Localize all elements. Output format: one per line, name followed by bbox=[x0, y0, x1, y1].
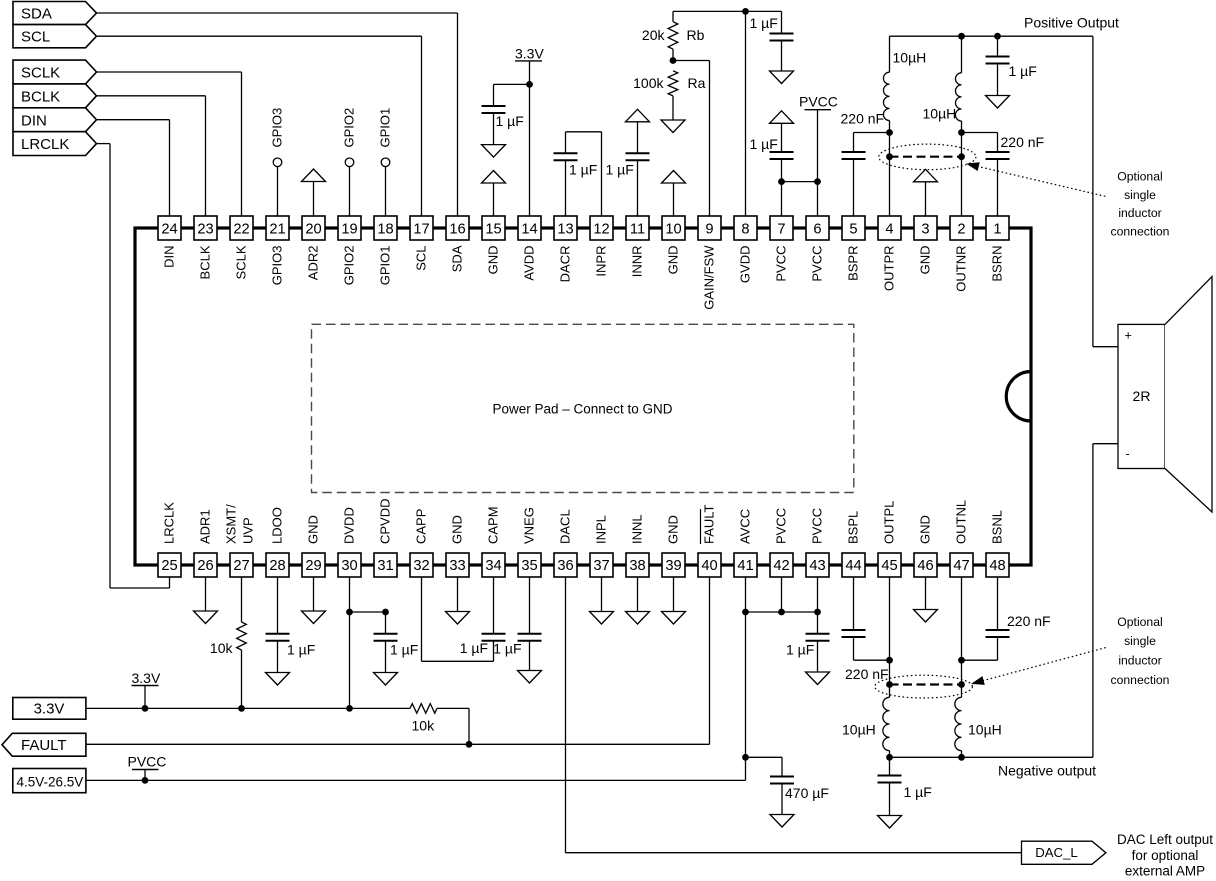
svg-text:PVCC: PVCC bbox=[810, 508, 825, 544]
svg-text:43: 43 bbox=[809, 558, 825, 574]
svg-text:Power Pad – Connect to GND: Power Pad – Connect to GND bbox=[492, 402, 672, 417]
svg-text:220 nF: 220 nF bbox=[841, 111, 885, 127]
pin 4 box bbox=[878, 216, 901, 240]
svg-text:2R: 2R bbox=[1133, 388, 1151, 404]
svg-text:OUTPR: OUTPR bbox=[882, 246, 897, 292]
svg-text:INPR: INPR bbox=[594, 246, 609, 277]
svg-text:48: 48 bbox=[989, 558, 1005, 574]
pin 38 box bbox=[626, 553, 649, 577]
wire positive output rail bbox=[890, 35, 1093, 37]
resistor 10k FAULT pullup bbox=[410, 704, 469, 745]
svg-text:1 µF: 1 µF bbox=[750, 15, 778, 31]
svg-text:GPIO2: GPIO2 bbox=[342, 108, 357, 148]
pin 32 name CAPP bbox=[414, 509, 429, 544]
capacitor 1uF CAPP-CAPM flying bbox=[422, 577, 506, 661]
capacitor 1uF DACR-INPR bbox=[554, 153, 598, 177]
svg-text:GND: GND bbox=[918, 515, 933, 544]
pin 29 box bbox=[302, 553, 325, 577]
pin 3 box bbox=[914, 216, 937, 240]
svg-text:BSRN: BSRN bbox=[990, 246, 1005, 282]
label DAC left output note bbox=[1117, 832, 1213, 879]
power pad region bbox=[312, 324, 854, 492]
svg-text:SDA: SDA bbox=[450, 245, 465, 272]
pin 16 box bbox=[446, 216, 469, 240]
pin 26 box bbox=[194, 553, 217, 577]
svg-text:-: - bbox=[1126, 447, 1130, 461]
svg-text:GND: GND bbox=[666, 246, 681, 275]
svg-text:single: single bbox=[1124, 634, 1156, 648]
pin 9 name GAIN/FSW bbox=[702, 245, 717, 310]
ground below VNEG cap bbox=[518, 671, 542, 684]
svg-text:29: 29 bbox=[305, 558, 321, 574]
pin 30 box bbox=[338, 553, 361, 577]
svg-text:SCL: SCL bbox=[414, 246, 429, 271]
svg-text:VNEG: VNEG bbox=[522, 507, 537, 544]
supply flag 3.3V bbox=[13, 698, 86, 720]
pin 33 name GND bbox=[450, 515, 465, 544]
capacitor 220nF BSPR bbox=[841, 111, 890, 217]
ground arrow above PVCC cap bbox=[770, 111, 794, 152]
svg-text:CAPP: CAPP bbox=[414, 509, 429, 544]
wire 3.3V rail bbox=[86, 686, 410, 709]
svg-text:30: 30 bbox=[341, 558, 357, 574]
pin 42 box bbox=[770, 553, 793, 577]
pin 9 box bbox=[698, 216, 721, 240]
pin 2 box bbox=[950, 216, 973, 240]
svg-text:39: 39 bbox=[665, 558, 681, 574]
inductor L2 10uH (OUTNR) bbox=[923, 36, 962, 216]
capacitor 1uF GVDD bbox=[750, 11, 794, 71]
capacitor 1uF AVDD bbox=[482, 106, 524, 129]
svg-text:OUTNL: OUTNL bbox=[954, 500, 969, 544]
capacitor 1uF output filter R bbox=[986, 36, 1037, 95]
ground pin 39 GND bbox=[662, 577, 686, 624]
svg-text:UVP: UVP bbox=[241, 517, 256, 544]
pin 34 name CAPM bbox=[486, 506, 501, 544]
svg-text:23: 23 bbox=[197, 222, 213, 238]
pin 7 box bbox=[770, 216, 793, 240]
svg-text:2: 2 bbox=[957, 222, 965, 238]
pin 37 box bbox=[590, 553, 613, 577]
svg-text:DVDD: DVDD bbox=[342, 507, 357, 544]
callout arrow (top) bbox=[968, 163, 1107, 197]
svg-text:38: 38 bbox=[629, 558, 645, 574]
ground below LDOO cap bbox=[266, 673, 290, 686]
pin 45 name OUTPL bbox=[882, 501, 897, 544]
svg-text:24: 24 bbox=[161, 222, 177, 238]
pin 38 name INNL bbox=[630, 514, 645, 544]
pin 19 name GPIO2 bbox=[342, 246, 357, 286]
pin 47 box bbox=[950, 553, 973, 577]
wire pin 47 OUTNL down bbox=[961, 577, 963, 697]
pin 40 box bbox=[698, 553, 721, 577]
junction PVCC tie bbox=[778, 178, 821, 185]
junction OUTNL bootstrap bbox=[958, 657, 965, 664]
svg-text:SCLK: SCLK bbox=[21, 65, 60, 82]
svg-text:GAIN/FSW: GAIN/FSW bbox=[702, 245, 717, 310]
svg-text:GND: GND bbox=[486, 246, 501, 275]
svg-text:DACR: DACR bbox=[558, 246, 573, 283]
svg-text:42: 42 bbox=[773, 558, 789, 574]
svg-text:LRCLK: LRCLK bbox=[21, 136, 69, 153]
svg-text:GPIO1: GPIO1 bbox=[378, 108, 393, 148]
label Positive Output bbox=[1024, 15, 1119, 31]
ground below PVCC cap bottom bbox=[806, 672, 830, 685]
junction pin 42 bbox=[778, 609, 785, 616]
svg-text:DAC Left output: DAC Left output bbox=[1117, 832, 1213, 847]
svg-text:connection: connection bbox=[1111, 224, 1170, 238]
flag FAULT bbox=[2, 733, 86, 756]
pin 14 name AVDD bbox=[522, 246, 537, 281]
capacitor 470uF bulk bbox=[746, 757, 829, 814]
svg-text:CAPM: CAPM bbox=[486, 506, 501, 544]
wire pin 36 DACL to DAC_L flag bbox=[566, 577, 1022, 853]
pin 19 box bbox=[338, 216, 361, 240]
wire DIN to pin 24 bbox=[97, 120, 170, 216]
svg-text:41: 41 bbox=[737, 558, 753, 574]
wire FAULT rail to pin 40 bbox=[86, 577, 710, 744]
wire pin 13 DACR up bbox=[565, 160, 567, 216]
svg-text:14: 14 bbox=[521, 222, 537, 238]
pin 42 name PVCC bbox=[774, 508, 789, 544]
capacitor 1uF output filter L bbox=[878, 757, 932, 815]
svg-text:DACL: DACL bbox=[558, 509, 573, 544]
svg-text:16: 16 bbox=[449, 222, 465, 238]
svg-text:1 µF: 1 µF bbox=[287, 642, 315, 658]
svg-text:inductor: inductor bbox=[1118, 206, 1161, 220]
capacitor 1uF LDOO bbox=[266, 577, 316, 673]
svg-text:1 µF: 1 µF bbox=[496, 113, 524, 129]
svg-text:inductor: inductor bbox=[1118, 654, 1161, 668]
svg-text:1 µF: 1 µF bbox=[390, 642, 418, 658]
svg-text:SCLK: SCLK bbox=[234, 245, 249, 279]
pin 43 name PVCC bbox=[810, 508, 825, 544]
svg-text:31: 31 bbox=[377, 558, 393, 574]
svg-text:OUTNR: OUTNR bbox=[954, 246, 969, 292]
pin 4 name OUTPR bbox=[882, 246, 897, 292]
svg-text:35: 35 bbox=[521, 558, 537, 574]
svg-text:22: 22 bbox=[233, 222, 249, 238]
svg-text:13: 13 bbox=[557, 222, 573, 238]
capacitor 1uF CPVDD bbox=[374, 612, 419, 673]
svg-text:PVCC: PVCC bbox=[128, 754, 167, 770]
label PVCC rail bbox=[128, 754, 167, 770]
callout text optional single inductor (bottom) bbox=[1111, 615, 1170, 687]
junction OUTPL filter bbox=[886, 754, 893, 761]
speaker horn bbox=[1165, 277, 1212, 512]
output flag DAC_L bbox=[1022, 841, 1106, 864]
wire pin 30 DVDD to 3.3V rail bbox=[349, 577, 351, 708]
wire GVDD top rail bbox=[673, 10, 782, 12]
svg-text:single: single bbox=[1124, 188, 1156, 202]
svg-text:FAULT: FAULT bbox=[21, 737, 67, 754]
svg-text:OUTPL: OUTPL bbox=[882, 501, 897, 544]
svg-text:10µH: 10µH bbox=[893, 49, 927, 65]
junction output cap at rail bbox=[994, 33, 1001, 40]
pin 46 name GND bbox=[918, 515, 933, 544]
pin 5 name BSPR bbox=[846, 246, 861, 281]
wire negative output rail bbox=[890, 756, 1093, 758]
svg-text:Negative output: Negative output bbox=[998, 763, 1096, 779]
junction GVDD rail bbox=[742, 8, 749, 15]
pin 41 box bbox=[734, 553, 757, 577]
junction PVCC tick bbox=[142, 777, 149, 784]
junction AVCC tie bbox=[742, 609, 817, 616]
svg-text:10k: 10k bbox=[412, 718, 436, 734]
ground below Ra bbox=[661, 120, 685, 133]
svg-text:1 µF: 1 µF bbox=[569, 162, 597, 178]
pin 46 box bbox=[914, 553, 937, 577]
pin 17 name SCL bbox=[414, 246, 429, 271]
capacitor 1uF INNR bbox=[606, 153, 650, 177]
input flag BCLK bbox=[13, 84, 97, 108]
svg-text:28: 28 bbox=[269, 558, 285, 574]
pin 1 box bbox=[986, 216, 1009, 240]
wire SCLK to pin 22 bbox=[97, 72, 242, 216]
pin 45 box bbox=[878, 553, 901, 577]
pin 17 box bbox=[410, 216, 433, 240]
svg-text:connection: connection bbox=[1111, 673, 1170, 687]
svg-text:BCLK: BCLK bbox=[21, 88, 60, 105]
pin 7 name PVCC bbox=[774, 246, 789, 282]
svg-text:19: 19 bbox=[341, 222, 357, 238]
pin 8 name GVDD bbox=[738, 246, 753, 284]
svg-text:3.3V: 3.3V bbox=[132, 670, 161, 686]
pin 35 box bbox=[518, 553, 541, 577]
wire 3.3V to pin 14 bbox=[529, 61, 531, 216]
svg-text:BSNL: BSNL bbox=[990, 510, 1005, 544]
svg-text:+: + bbox=[1125, 329, 1132, 343]
pin 20 box bbox=[302, 216, 325, 240]
ground below CPVDD cap bbox=[374, 673, 398, 686]
pin 12 box bbox=[590, 216, 613, 240]
pin 20 name ADR2 bbox=[306, 246, 321, 281]
pin 41 name AVCC bbox=[738, 509, 753, 544]
ground below AVDD cap bbox=[482, 145, 506, 158]
svg-text:PVCC: PVCC bbox=[810, 246, 825, 282]
svg-text:CPVDD: CPVDD bbox=[378, 498, 393, 544]
highlight ellipse (top) bbox=[879, 144, 976, 170]
pin 48 name BSNL bbox=[990, 510, 1005, 544]
svg-text:INNL: INNL bbox=[630, 514, 645, 544]
svg-text:220 nF: 220 nF bbox=[1007, 613, 1051, 629]
pin 14 box bbox=[518, 216, 541, 240]
junction Rb/Ra node bbox=[670, 57, 677, 64]
pin 36 box bbox=[554, 553, 577, 577]
svg-text:3: 3 bbox=[921, 222, 929, 238]
svg-text:DIN: DIN bbox=[162, 246, 177, 268]
wire SCL to pin 17 bbox=[97, 36, 422, 216]
svg-text:1 µF: 1 µF bbox=[460, 640, 488, 656]
svg-text:XSMT/: XSMT/ bbox=[224, 504, 239, 544]
pin 1 name BSRN bbox=[990, 246, 1005, 282]
pin 21 box bbox=[266, 216, 289, 240]
svg-text:Optional: Optional bbox=[1117, 615, 1162, 629]
svg-text:GND: GND bbox=[450, 515, 465, 544]
svg-text:10k: 10k bbox=[210, 640, 234, 656]
pin 16 name SDA bbox=[450, 245, 465, 272]
pin 30 name DVDD bbox=[342, 507, 357, 544]
svg-text:4: 4 bbox=[885, 222, 893, 238]
inductor L3 10uH (OUTPL) bbox=[842, 697, 890, 757]
wire pin 43 PVCC bbox=[817, 577, 819, 612]
svg-text:AVCC: AVCC bbox=[738, 509, 753, 544]
capacitor 220nF BSRN bbox=[962, 133, 1045, 217]
pin 23 box bbox=[194, 216, 217, 240]
svg-text:21: 21 bbox=[269, 222, 285, 238]
pin 44 box bbox=[842, 553, 865, 577]
pin 36 name DACL bbox=[558, 509, 573, 544]
ground arrow pin 3 GND bbox=[914, 169, 938, 216]
pin 12 name INPR bbox=[594, 246, 609, 277]
svg-text:for optional: for optional bbox=[1132, 848, 1199, 863]
svg-text:46: 46 bbox=[917, 558, 933, 574]
svg-text:15: 15 bbox=[485, 222, 501, 238]
pin 6 name PVCC bbox=[810, 246, 825, 282]
wire cap to pin 12 INPR bbox=[566, 132, 602, 216]
optional single-inductor jumper (bottom) bbox=[886, 681, 965, 688]
svg-text:LRCLK: LRCLK bbox=[162, 502, 177, 544]
svg-text:3.3V: 3.3V bbox=[515, 46, 544, 62]
svg-text:BSPR: BSPR bbox=[846, 246, 861, 281]
pin 13 box bbox=[554, 216, 577, 240]
svg-text:ADR1: ADR1 bbox=[198, 509, 213, 544]
wire rail to pin 8 GVDD bbox=[745, 11, 747, 216]
input flag SCL bbox=[13, 25, 97, 48]
svg-text:45: 45 bbox=[881, 558, 897, 574]
svg-text:Positive Output: Positive Output bbox=[1024, 15, 1119, 31]
svg-text:3.3V: 3.3V bbox=[34, 701, 65, 718]
inductor L1 10uH (OUTPR) bbox=[883, 36, 926, 216]
ground arrow pin 15 GND bbox=[482, 171, 506, 217]
junction OUTNR below L2 bbox=[958, 129, 965, 136]
svg-text:33: 33 bbox=[449, 558, 465, 574]
ground below GVDD cap bbox=[770, 71, 794, 84]
junction DVDD/CPVDD tie bbox=[346, 609, 389, 616]
input flag LRCLK bbox=[13, 132, 97, 156]
svg-text:17: 17 bbox=[413, 222, 429, 238]
svg-text:BSPL: BSPL bbox=[846, 511, 861, 544]
svg-text:10µH: 10µH bbox=[968, 722, 1002, 738]
ground pin 29 GND bbox=[302, 577, 326, 624]
svg-text:GND: GND bbox=[306, 515, 321, 544]
pin 35 name VNEG bbox=[522, 507, 537, 544]
svg-text:GPIO1: GPIO1 bbox=[378, 246, 393, 286]
pin 48 box bbox=[986, 553, 1009, 577]
svg-text:INPL: INPL bbox=[594, 515, 609, 544]
resistor 10k XSMT pulldown bbox=[210, 577, 246, 708]
svg-text:SDA: SDA bbox=[21, 6, 52, 23]
pin 39 name GND bbox=[666, 515, 681, 544]
pin 39 box bbox=[662, 553, 685, 577]
svg-text:LDOO: LDOO bbox=[270, 507, 285, 544]
pin 26 name ADR1 bbox=[198, 509, 213, 544]
pin 2 name OUTNR bbox=[954, 246, 969, 292]
wire pin 41 AVCC down bbox=[745, 577, 747, 780]
wire divider tap to pin 9 GAIN/FSW bbox=[673, 61, 710, 217]
pin 44 name BSPL bbox=[846, 511, 861, 544]
optional single-inductor jumper (top) bbox=[886, 153, 965, 160]
svg-text:100k: 100k bbox=[633, 75, 664, 91]
pin 40 name FAULT (active low) bbox=[701, 504, 717, 544]
pin 25 name LRCLK bbox=[162, 502, 177, 544]
junction OUTPL bootstrap bbox=[886, 657, 893, 664]
pin 28 box bbox=[266, 553, 289, 577]
svg-text:BCLK: BCLK bbox=[198, 245, 213, 279]
ground below output cap R bbox=[986, 96, 1010, 109]
IC U1 body outline (48-pin) bbox=[135, 228, 1031, 565]
resistor Ra 100k bbox=[633, 71, 705, 120]
wire pin 45 OUTPL down bbox=[889, 577, 891, 697]
svg-text:40: 40 bbox=[701, 558, 717, 574]
svg-text:GPIO3: GPIO3 bbox=[270, 108, 285, 148]
svg-text:PVCC: PVCC bbox=[774, 246, 789, 282]
pin 11 name INNR bbox=[630, 246, 645, 278]
ground arrow above INNR cap bbox=[626, 109, 650, 153]
svg-text:1 µF: 1 µF bbox=[493, 641, 521, 657]
svg-text:GVDD: GVDD bbox=[738, 246, 753, 284]
svg-text:7: 7 bbox=[777, 222, 785, 238]
pin 15 name GND bbox=[486, 246, 501, 275]
svg-text:DIN: DIN bbox=[21, 112, 47, 129]
svg-text:26: 26 bbox=[197, 558, 213, 574]
junction FAULT pullup bbox=[466, 741, 473, 748]
pin 31 name CPVDD bbox=[378, 498, 393, 544]
svg-text:DAC_L: DAC_L bbox=[1035, 845, 1078, 860]
wire PVCC rail bbox=[86, 770, 746, 781]
wire negative output from speaker bbox=[1093, 444, 1118, 758]
junction 3.3V DVDD bbox=[346, 705, 353, 712]
svg-text:11: 11 bbox=[630, 222, 645, 238]
svg-text:4.5V-26.5V: 4.5V-26.5V bbox=[17, 775, 84, 790]
pin 27 name XSMT/UVP bbox=[224, 504, 256, 544]
svg-text:1 µF: 1 µF bbox=[1009, 63, 1037, 79]
svg-text:ADR2: ADR2 bbox=[306, 246, 321, 281]
terminal GPIO2 on pin 19 bbox=[342, 108, 357, 216]
wire PVCC to pin 6 bbox=[817, 110, 819, 216]
svg-text:GND: GND bbox=[666, 515, 681, 544]
pin 15 box bbox=[482, 216, 505, 240]
svg-text:PVCC: PVCC bbox=[799, 94, 838, 110]
svg-text:Ra: Ra bbox=[688, 75, 706, 91]
label 3.3V rail bbox=[132, 670, 161, 686]
pin 47 name OUTNL bbox=[954, 500, 969, 544]
wire INNR cap to pin 11 bbox=[637, 160, 639, 216]
svg-text:10: 10 bbox=[665, 222, 681, 238]
resistor Rb 20k bbox=[642, 11, 705, 60]
wire to C-AVDD bbox=[494, 84, 530, 106]
pin 5 box bbox=[842, 216, 865, 240]
svg-text:1 µF: 1 µF bbox=[606, 162, 634, 178]
pin 27 box bbox=[230, 553, 253, 577]
pin 32 box bbox=[410, 553, 433, 577]
pin 10 box bbox=[662, 216, 685, 240]
pin 33 box bbox=[446, 553, 469, 577]
svg-text:20k: 20k bbox=[642, 27, 666, 43]
terminal GPIO3 on pin 21 bbox=[270, 108, 285, 216]
terminal ADR2 arrow on pin 20 bbox=[302, 169, 326, 216]
pin 24 name DIN bbox=[162, 246, 177, 268]
wire BCLK to pin 23 bbox=[97, 96, 206, 216]
svg-text:220 nF: 220 nF bbox=[845, 666, 889, 682]
input flag SDA bbox=[13, 2, 97, 25]
pin 18 name GPIO1 bbox=[378, 246, 393, 286]
svg-text:Optional: Optional bbox=[1117, 170, 1162, 184]
svg-text:8: 8 bbox=[741, 222, 749, 238]
ground pin 37 INPL bbox=[590, 577, 614, 624]
svg-text:Rb: Rb bbox=[687, 27, 705, 43]
svg-text:SCL: SCL bbox=[21, 29, 50, 46]
